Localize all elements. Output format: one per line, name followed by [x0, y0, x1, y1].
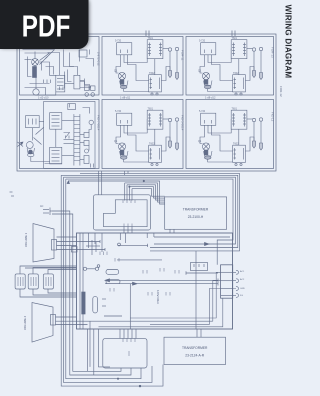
pot wiper arrow: [18, 142, 24, 147]
capacitor C201: [84, 133, 89, 138]
wire harness line 3: [64, 177, 236, 244]
sub-schematic panel cell 2,2: [114, 108, 179, 166]
wire bottom stub: [104, 315, 122, 317]
relay K1: [191, 263, 208, 271]
wire tap c: [64, 133, 70, 138]
wire CN1 pin 7 drop: [131, 227, 133, 233]
stray mark a: [10, 191, 13, 193]
svg-text:FIG-5-8014: FIG-5-8014: [181, 115, 185, 131]
wire S3 top to PCB: [48, 270, 77, 274]
switch S102: [91, 86, 96, 91]
svg-text:FG: FG: [240, 295, 243, 297]
jack J201: [85, 149, 89, 153]
wire harness line 9 to transformer T1: [132, 189, 165, 197]
pin pair: [66, 136, 70, 139]
wire PCB left inner rail 1: [79, 233, 81, 329]
CN3 mating pin 3: [233, 287, 239, 291]
registration ticks top border: [146, 31, 235, 37]
main PCB outline: [77, 233, 233, 329]
wire R101 to DS101: [35, 78, 37, 89]
CN3 mating pin 2: [233, 279, 239, 283]
wire left wrap 3: [66, 179, 141, 379]
wire bottom riser 1: [87, 329, 89, 371]
wire S3 bottom to PCB: [48, 289, 77, 293]
transformer T2 box: [164, 337, 226, 364]
switch S2: [28, 274, 38, 289]
connector CN2 on left edge: [72, 247, 78, 253]
wire left riser b: [95, 242, 97, 252]
wire PCB left inner rail 2: [82, 233, 84, 329]
S2 contacts: [31, 277, 36, 286]
sub-schematic panel cell 1,1: [23, 50, 96, 97]
wire C3 stub a: [102, 298, 106, 300]
T1 bottom pin 1: [169, 229, 171, 233]
wire bus to C202: [80, 142, 84, 144]
wire harness line 2: [61, 175, 238, 247]
junction node C: [139, 385, 141, 387]
wire CN1 pin 2 riser: [126, 185, 128, 201]
wire C101 to S102: [80, 86, 91, 88]
tick SP1 lead 2 end: [99, 240, 101, 243]
PDF badge: [0, 0, 89, 49]
S1 contacts: [18, 277, 23, 286]
wire CN1 pin 6 drop: [127, 227, 129, 233]
wire top rail A: [23, 49, 55, 51]
wire S1 bottom to PCB: [20, 289, 77, 297]
wire TB201 to frame: [39, 121, 44, 123]
svg-text:GND: GND: [240, 288, 245, 290]
motor M201 with pot: [26, 142, 34, 157]
wire C101 to S101 top: [80, 80, 85, 82]
connector CN3 (power connector): [221, 265, 233, 298]
jack J202: [89, 120, 93, 124]
wire harness line 4: [66, 179, 233, 265]
wire mid drop: [195, 251, 197, 329]
wire bottom rail: [45, 163, 62, 165]
wire PCB to CN4 pin 5: [135, 329, 137, 338]
wire S2 top to PCB: [33, 268, 77, 274]
svg-text:VOLUME 1: VOLUME 1: [24, 232, 28, 247]
arrowhead on net in-rail: [205, 243, 210, 246]
IC U101: [56, 75, 65, 92]
wire bus to C201: [80, 134, 84, 136]
wire net F1: [118, 244, 148, 246]
wire K201 stub: [69, 104, 71, 108]
test point ticks mid PCB: [143, 268, 179, 296]
sub-schematic panel cell 2,3: [198, 108, 263, 166]
panel border cell 1,1: [20, 37, 100, 96]
wire CN1 pin 5 drop: [123, 227, 125, 233]
wire M201 to U202: [31, 157, 50, 162]
schematic sheet outer border: [17, 34, 276, 171]
T1 bottom pin 2: [173, 229, 175, 233]
svg-text:FIG-7-8014: FIG-7-8014: [97, 115, 101, 131]
wire C101 to S101: [80, 82, 85, 86]
CN3 pin labels: [240, 270, 245, 297]
wire K201 to J202: [83, 108, 90, 114]
wire top rail B with slope: [25, 53, 50, 61]
wire SP1 lead 3: [57, 245, 77, 247]
wire PCB inner top rail: [154, 236, 230, 238]
svg-text:1-d8-d11: 1-d8-d11: [120, 96, 131, 100]
wire SP1 lead 1: [57, 236, 77, 238]
svg-text:PDF: PDF: [22, 10, 71, 44]
wire diagonal G: [40, 57, 48, 65]
junction node B: [129, 186, 130, 187]
svg-text:TRANSFORMER: TRANSFORMER: [183, 207, 209, 211]
wire C3 stub b: [102, 305, 106, 307]
ribbon bus ladder: [74, 114, 80, 165]
arrowhead harness line 5: [67, 181, 69, 184]
wire PCB to CN4 pin 3: [127, 329, 129, 338]
panel border cell 1,2: [102, 37, 183, 96]
CN4 center tick: [128, 351, 130, 356]
switch S101: [85, 86, 90, 91]
speaker SP2 cone: [32, 303, 53, 343]
arrowhead AC-L: [105, 279, 110, 282]
wire diagonal b: [34, 138, 42, 145]
svg-text:FOR-11: FOR-11: [181, 50, 185, 61]
panel border cell 2,3: [186, 100, 274, 169]
CN1 bottom pins 5-7: [124, 224, 132, 227]
relay K101: [79, 50, 87, 57]
IC U201: [50, 113, 62, 130]
switch S3: [43, 274, 53, 289]
wire grid drop 2: [101, 171, 103, 195]
wire top drop 3: [101, 233, 103, 252]
pin pair CN201: [91, 164, 94, 168]
wire K101 to plug: [86, 59, 94, 67]
wire Q101 base feed: [34, 52, 36, 59]
wire SP1 lead 2: [57, 241, 101, 243]
arrowhead AC-N: [133, 282, 138, 285]
wire grid drop 4: [127, 171, 129, 173]
capacitor C202: [84, 141, 89, 146]
transistor Q101: [32, 59, 39, 66]
wire stub E: [79, 50, 81, 62]
wire SP2 lead 2: [56, 316, 77, 318]
wire diagonal a: [36, 128, 44, 135]
wire top drop 1: [88, 233, 90, 248]
wire stub F: [25, 59, 32, 61]
CN3 mating pin 4: [233, 293, 239, 297]
capacitor C1: [106, 270, 119, 275]
CN1 top pins 1-4: [123, 200, 135, 203]
speaker SP1 terminal block: [52, 240, 57, 251]
wire top drop 2: [94, 233, 96, 244]
wire net F2: [117, 259, 162, 261]
wire CN1 pin 1 riser: [124, 183, 126, 201]
svg-text:2-972-012: 2-972-012: [97, 52, 101, 66]
wire top drop 7: [153, 233, 155, 237]
wire Q101 to R101: [34, 66, 36, 70]
wire node M: [68, 70, 72, 82]
wire harness line 8 to transformer T1: [129, 187, 164, 198]
wire T2 primary 1: [196, 329, 198, 337]
IC U202: [50, 147, 62, 164]
transformer T1 box: [165, 197, 227, 229]
capacitor C2: [106, 280, 120, 284]
relay K201: [68, 104, 76, 110]
CN3 pin 1: [221, 271, 233, 273]
wire rail to node D: [64, 50, 74, 67]
tick SP1 lead 4 end: [104, 248, 106, 251]
AC plug P1 stem: [50, 210, 52, 212]
wire tap e: [64, 143, 74, 145]
wire AC-N drop: [129, 284, 131, 329]
wire top rail to U101: [48, 53, 60, 76]
wire PCB to CN4 pin 2: [123, 329, 125, 338]
control unit CN1 inner body: [104, 200, 148, 227]
terminal pins row 2: [60, 87, 64, 91]
wire left riser a: [91, 240, 93, 255]
svg-text:120V-60Hz: 120V-60Hz: [156, 290, 160, 304]
wire CN3 pin 3 to PCB: [150, 289, 221, 325]
wire CN1 pin 3 riser: [128, 187, 130, 201]
fuse F1: [83, 267, 98, 270]
jack J102: [91, 93, 95, 97]
net AC-N rail: [105, 283, 218, 285]
capacitor C101: [74, 75, 80, 89]
wire AC line L: [52, 211, 131, 375]
svg-text:AC: AC: [40, 205, 44, 208]
switch S1: [15, 274, 25, 289]
wire S1 top to PCB: [20, 266, 77, 274]
junction node D: [117, 378, 118, 379]
resistor R1 (filled body): [82, 292, 85, 314]
svg-text:FOR-13: FOR-13: [271, 47, 275, 58]
wire top drop 5: [124, 233, 126, 243]
wire S101 link: [85, 79, 90, 91]
tick node AC end: [217, 279, 219, 286]
net AC-L rail: [105, 279, 218, 281]
wire node L: [64, 72, 66, 89]
wire CN1 pin 4 riser: [131, 189, 133, 201]
wire S2 bottom to PCB: [33, 289, 77, 295]
panel caption cell 1,1: [38, 96, 216, 100]
svg-text:TRANSFORMER: TRANSFORMER: [182, 346, 208, 350]
wire tap d: [64, 139, 74, 141]
wire U201 to bus: [62, 120, 74, 122]
wire switch rail top: [25, 267, 77, 269]
svg-text:VOLUME 2: VOLUME 2: [23, 315, 27, 330]
tick node 4A: [185, 271, 187, 274]
wire SP2 lead 1 (to CN3): [56, 320, 213, 322]
wire bottom riser 3: [93, 329, 95, 375]
wire CN3 pin 4 wrap: [99, 298, 223, 326]
wire left loop: [28, 57, 32, 77]
resistor R101 (filled body): [33, 67, 37, 78]
wire Q101 collector to U101: [39, 62, 56, 75]
tick net F1: [147, 244, 149, 247]
wire top rail to C101: [70, 53, 78, 76]
wire bottom rail H: [30, 83, 50, 85]
wire top drop 6: [146, 233, 148, 238]
wire AC line N: [52, 214, 121, 371]
CN3 pin 4: [221, 294, 233, 296]
net 4A rail: [186, 272, 218, 274]
wire diagonal branch: [46, 50, 55, 59]
wire harness line 7 to transformer T1: [127, 185, 165, 200]
sub-schematic panel cell 2,1: [18, 101, 96, 168]
wire T2 primary 2: [200, 329, 202, 337]
wire DS101 to U101: [36, 92, 56, 95]
junction node A: [143, 180, 145, 182]
PDF badge shadow: [0, 0, 90, 49]
CN3 mating pin 1: [233, 270, 239, 274]
svg-text:FIG-12: FIG-12: [271, 112, 275, 122]
wire node J: [41, 62, 43, 71]
terminal pins row 1: [44, 80, 51, 84]
panel border cell 2,2: [102, 100, 183, 169]
panel border cell 1,3: [186, 37, 274, 96]
wire left wrap 1: [61, 175, 163, 386]
pilot lamp DS1: [118, 243, 121, 246]
S3 contacts: [46, 277, 51, 286]
wire node K: [46, 67, 54, 75]
speaker SP2 terminal block: [51, 315, 56, 326]
wire PCB to CN4 pin 4: [131, 329, 133, 338]
AC plug P1 prong 2: [43, 212, 49, 214]
wire harness line 6 to transformer T1: [125, 183, 165, 202]
PDF badge text: [22, 10, 71, 44]
wire left wrap 2: [64, 177, 153, 382]
sub-schematic panel cell 1,2: [114, 37, 179, 95]
panel border cell 2,1: [20, 100, 100, 169]
wire PCB to CN4 pin 1: [119, 329, 121, 338]
connector CN201: [84, 156, 89, 164]
wire CN3 pin 2 to speaker bus: [213, 281, 221, 322]
wire K101 stub: [89, 50, 91, 55]
terminal pins left cluster: [100, 252, 119, 292]
jack J1: [97, 265, 100, 268]
lamp DS101: [33, 89, 39, 95]
wire harness line 1: [80, 173, 240, 251]
sub-schematic panel cell 1,3: [198, 37, 263, 95]
wire U101 to C101: [65, 83, 74, 85]
wire J201 stub: [88, 146, 90, 151]
wire TB201 to M201: [31, 128, 33, 141]
control unit CN1 outer shell: [94, 195, 151, 230]
capacitor C3 electrolytic: [93, 296, 98, 313]
wire top drop 4: [119, 233, 121, 240]
svg-text:1-d8-d12: 1-d8-d12: [205, 96, 216, 100]
svg-text:23-2124-A-R: 23-2124-A-R: [185, 354, 204, 358]
wire bottom riser 4: [99, 329, 111, 367]
wire SP1 lead 4: [57, 249, 106, 251]
CN4 top pins: [123, 338, 135, 342]
AC plug P1 body: [49, 208, 51, 216]
AC plug P1 prong 1: [43, 209, 49, 211]
transformer T1 label: [183, 207, 209, 219]
speaker SP1 cone: [33, 224, 54, 263]
wire fuse link: [86, 245, 100, 247]
inner enclosure frame: [44, 101, 95, 168]
wire bottom rail I: [25, 88, 46, 96]
CN3 pin 2: [221, 280, 233, 282]
terminal block TB201: [26, 116, 40, 128]
wire grid drop 3: [124, 171, 126, 175]
wire grid drop 1: [98, 171, 100, 195]
svg-text:WIRING DIAGRAM: WIRING DIAGRAM: [283, 5, 292, 79]
wire bottom riser 2: [89, 321, 91, 367]
wire CN3 pin 1 to PCB: [130, 272, 220, 318]
svg-text:FOR-12: FOR-12: [279, 86, 283, 97]
jack J101: [85, 93, 89, 97]
wire harness line 5 to transformer T1: [68, 181, 164, 204]
relay unit CN4 box: [103, 338, 147, 368]
transformer T2 label: [182, 346, 208, 358]
wire J202 to C201: [89, 125, 91, 133]
wire U201 to U202: [55, 129, 57, 147]
svg-text:1-d2-d10: 1-d2-d10: [38, 96, 49, 100]
CN3 pin 3: [221, 288, 233, 290]
wire bus to CN201: [80, 159, 84, 161]
wire SP2 lead 3: [56, 324, 88, 326]
wire U202 to bus: [62, 155, 74, 157]
svg-text:23-2100-H: 23-2100-H: [188, 215, 204, 219]
stray mark b: [11, 195, 14, 197]
